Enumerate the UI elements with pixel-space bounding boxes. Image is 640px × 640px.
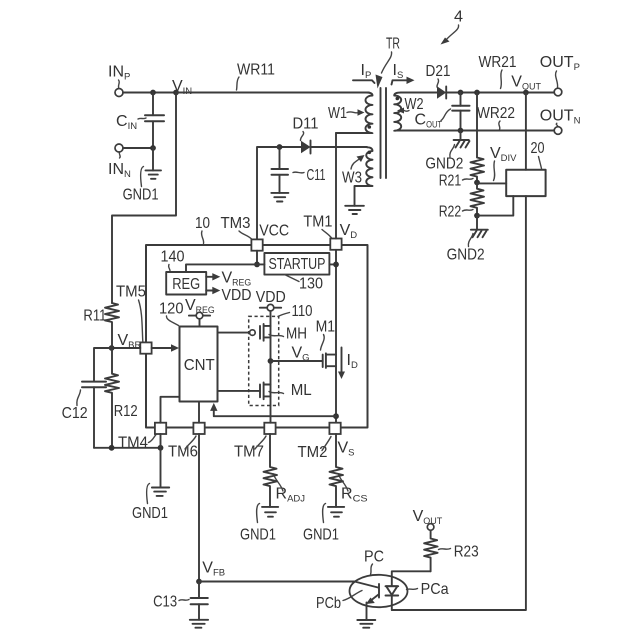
terminal TM1 (303, 214, 341, 250)
dashed box 110 (249, 303, 313, 406)
current label I_P (353, 62, 375, 83)
svg-text:VDD: VDD (256, 289, 286, 306)
winding W1 (328, 93, 373, 134)
resistor R22 (439, 183, 484, 221)
wire V_BR to CNT with arrow (112, 344, 179, 351)
junction dot C_OUT top (458, 90, 464, 96)
transistor M1 (316, 319, 336, 368)
svg-text:R23: R23 (454, 544, 479, 561)
transistor ML (218, 361, 312, 423)
terminal TM2 (298, 423, 341, 461)
wire V_IN down-left corner to R11 (112, 93, 176, 304)
resistor R_CS (330, 434, 368, 507)
transformer core (381, 88, 387, 178)
wire block 20 bottom to optocoupler (392, 196, 526, 610)
node V_FB (196, 560, 225, 585)
terminal TM4 (118, 423, 166, 452)
label V_REG CNT supply (185, 297, 215, 327)
ground GND1 under R_ADJ (240, 504, 278, 544)
arrow REG out V_REG (206, 270, 251, 289)
transistor MH (218, 324, 308, 343)
svg-text:TM7: TM7 (234, 444, 264, 461)
svg-text:10: 10 (195, 215, 210, 232)
ground GND2 under C_OUT (425, 140, 469, 173)
terminal IN_P (108, 64, 130, 97)
capacitor C_IN (116, 93, 164, 149)
svg-text:GND1: GND1 (132, 505, 168, 522)
junction dot M1 source (333, 413, 339, 419)
terminal OUT_N (540, 108, 581, 135)
wire TM6 down to V_FB (198, 434, 200, 582)
svg-text:MH: MH (286, 326, 307, 343)
capacitor C11 (272, 147, 326, 193)
junction dot C_IN top (150, 90, 156, 96)
svg-text:GND2: GND2 (447, 247, 485, 264)
wire V_OUT to block 20 top (525, 93, 527, 170)
terminal TM3 (221, 215, 263, 251)
winding W2 (394, 93, 423, 131)
svg-text:R11: R11 (83, 308, 106, 325)
svg-text:GND1: GND1 (303, 527, 339, 544)
block REG 140 (166, 272, 206, 295)
svg-text:TM2: TM2 (298, 444, 328, 461)
svg-text:WR22: WR22 (477, 105, 515, 122)
wire TM3 to internal node (256, 251, 258, 265)
svg-text:W3: W3 (342, 170, 362, 187)
terminal TM6 (168, 423, 205, 461)
ground GND1 TM4 (132, 484, 169, 523)
ground under PCb emitter (357, 620, 375, 628)
svg-text:GND2: GND2 (425, 156, 463, 173)
svg-text:TM3: TM3 (221, 215, 251, 232)
wire WR22 label (477, 105, 515, 130)
svg-text:R12: R12 (114, 403, 138, 420)
wire to GND1 (152, 148, 154, 170)
ground under C11 (271, 193, 288, 202)
svg-text:STARTUP: STARTUP (269, 256, 326, 273)
terminal IN_N (108, 144, 131, 180)
wire bottom-left bus (94, 447, 161, 449)
svg-text:PCb: PCb (316, 595, 341, 612)
node V_OUT top (511, 74, 541, 93)
svg-text:D11: D11 (293, 116, 319, 133)
current label I_D (338, 348, 358, 380)
wire V_G to M1 gate (271, 360, 323, 362)
node V_IN (172, 78, 192, 97)
wire V_DIV to block 20 (477, 182, 506, 184)
supply terminal VDD above MH (256, 289, 286, 361)
svg-text:110: 110 (292, 303, 313, 320)
wire IN_P to V_IN (123, 92, 176, 94)
svg-text:C11: C11 (307, 167, 326, 184)
wire V_FB to optocoupler collector (199, 581, 355, 583)
svg-text:20: 20 (531, 140, 545, 157)
svg-text:130: 130 (299, 276, 323, 293)
svg-text:TR: TR (386, 36, 400, 53)
wire VCC from C11 junction to TM3 (257, 147, 280, 239)
svg-text:PC: PC (364, 549, 384, 566)
wire W2 bottom to OUT_N (401, 130, 554, 132)
resistor R_ADJ (264, 434, 306, 507)
wire sense feedback to CNT with up arrow (210, 403, 336, 416)
wire CNT bottom to TM6 (198, 402, 200, 423)
block CNT 120 (180, 327, 218, 402)
block 20 (506, 140, 545, 196)
resistor R21 (439, 93, 484, 190)
svg-text:120: 120 (159, 301, 184, 318)
transformer TR (376, 36, 401, 89)
wire W1 bottom to TM1 and M1 drain rail (335, 133, 337, 423)
svg-text:M1: M1 (316, 319, 336, 336)
svg-text:C12: C12 (62, 405, 88, 422)
current label I_S (392, 62, 415, 85)
svg-text:WR11: WR11 (237, 62, 275, 79)
node V_DIV (474, 145, 517, 185)
diode D21 (401, 63, 554, 99)
phototransistor PCb (316, 582, 379, 621)
junction dot TM3/STARTUP/REG (254, 262, 260, 268)
svg-text:GND1: GND1 (123, 187, 159, 204)
label 130 (285, 275, 323, 293)
node V_G (268, 345, 310, 364)
svg-text:D21: D21 (426, 63, 451, 80)
svg-text:REG: REG (172, 276, 200, 293)
junction dot R22 bottom (474, 213, 480, 219)
wire TM4 down to ground (160, 434, 162, 488)
terminal TM5 (116, 284, 152, 354)
junction dot STARTUP/TM1 (333, 262, 339, 268)
svg-text:4: 4 (454, 9, 463, 26)
capacitor C13 (153, 582, 208, 620)
resistor R12 (105, 348, 138, 448)
wire CNT to TM4 (161, 397, 180, 423)
svg-text:TM6: TM6 (168, 444, 198, 461)
svg-text:R22: R22 (439, 204, 462, 221)
winding W3 (342, 147, 373, 206)
wire R22 to GND2 (476, 216, 478, 230)
photodiode PCa (386, 581, 449, 610)
ground under W3 (345, 206, 364, 214)
svg-text:R21: R21 (439, 173, 462, 190)
svg-text:C13: C13 (153, 594, 177, 611)
svg-text:GND1: GND1 (240, 527, 276, 544)
ground under C13 (190, 620, 208, 628)
resistor R23 (424, 530, 479, 571)
label 4 (441, 9, 464, 45)
svg-text:140: 140 (161, 249, 185, 266)
wire R23 to PCa anode (392, 571, 431, 586)
node V_BR (109, 332, 142, 351)
junction dot R12 bottom (109, 445, 115, 451)
node V_OUT at R23 (413, 508, 443, 530)
optocoupler PC ellipse (350, 549, 408, 608)
svg-text:WR21: WR21 (479, 54, 517, 71)
svg-text:ML: ML (291, 382, 312, 399)
svg-text:PCa: PCa (421, 581, 449, 598)
junction dot IN_N (150, 145, 156, 151)
ground GND1 input (123, 167, 161, 204)
svg-text:W1: W1 (328, 105, 347, 122)
terminal TM7 (234, 423, 276, 461)
ground GND2 under R22 (447, 230, 488, 264)
svg-text:TM1: TM1 (303, 214, 332, 231)
svg-text:TM4: TM4 (118, 435, 148, 452)
wire IN_N to junction (123, 147, 153, 149)
IC 10 outline (146, 215, 368, 428)
ground GND1 under R_CS (303, 504, 344, 544)
wire STARTUP to TM1 rail (329, 263, 336, 265)
svg-text:CNT: CNT (184, 357, 215, 374)
svg-text:VCC: VCC (259, 223, 289, 240)
junction dot TM4 line (158, 445, 164, 451)
svg-text:TM5: TM5 (116, 284, 146, 301)
capacitor C12 (62, 348, 112, 448)
junction dot C11/VCC (277, 144, 283, 150)
svg-text:VDD: VDD (222, 287, 252, 304)
wire C_OUT to GND2 (460, 131, 462, 141)
junction dot block20 line (523, 90, 529, 96)
resistor R11 (83, 303, 119, 348)
supply terminal V_REG above CNT (159, 301, 184, 326)
block STARTUP 130 (264, 253, 329, 275)
diode D11 (280, 116, 368, 154)
capacitor C_OUT (415, 93, 470, 131)
wire R22 to block 20 bottom (477, 196, 513, 216)
junction dot R21 top (474, 90, 480, 96)
arrow REG out VDD (206, 287, 251, 304)
wire WR21 label (479, 54, 517, 89)
wire REG to STARTUP node (186, 264, 264, 272)
terminal OUT_P (540, 54, 580, 96)
label 140 (161, 249, 185, 272)
junction dot C_OUT bottom (458, 128, 464, 134)
wire WR11 (176, 62, 369, 93)
